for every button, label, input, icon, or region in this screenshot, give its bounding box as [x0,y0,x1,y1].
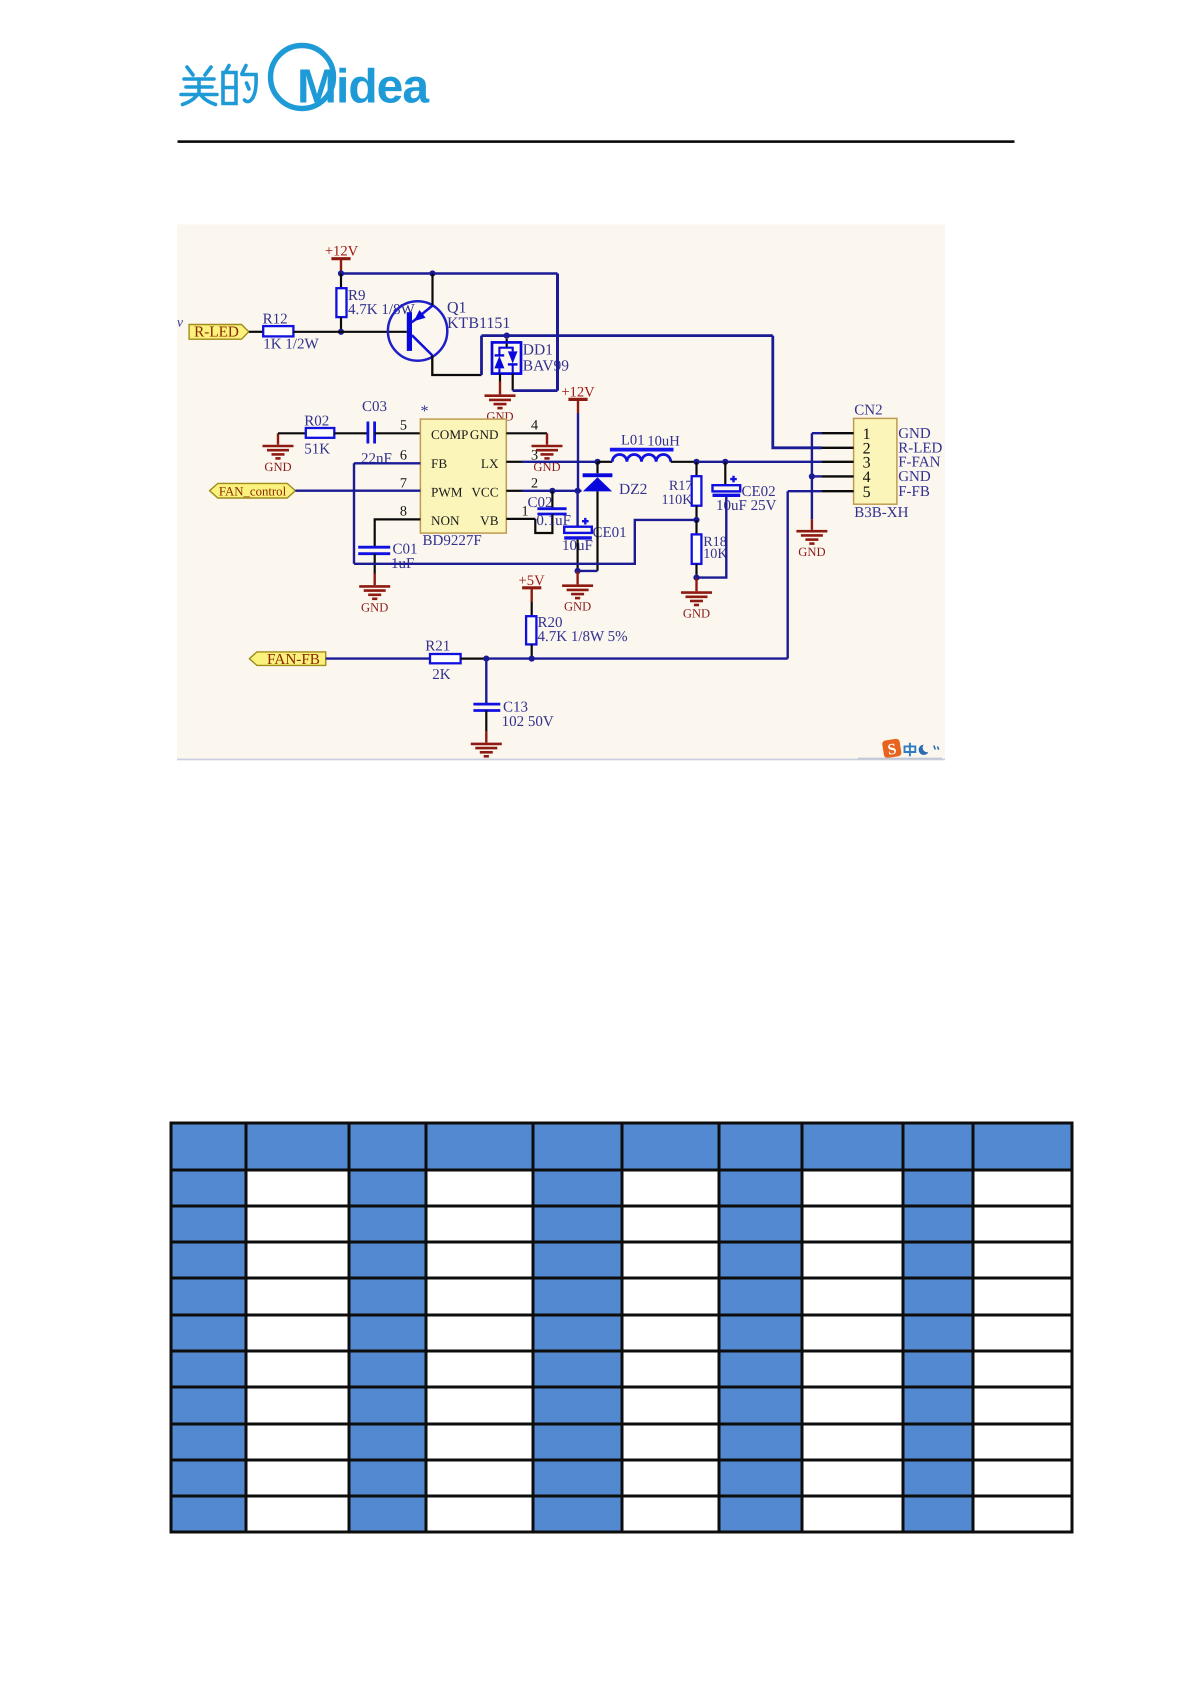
美 glyph (vector approximation) [181,67,217,105]
resistor R21 [425,638,460,683]
svg-text:DD1: DD1 [523,341,553,358]
svg-text:PWM: PWM [431,484,463,499]
wire CE01 bottom [576,540,578,571]
svg-text:22nF: 22nF [361,451,392,467]
svg-text:2K: 2K [432,667,451,683]
svg-text:BD9227F: BD9227F [423,533,482,549]
wire Q1 emitter to rail [431,274,433,306]
wire VB pin 1 [506,518,535,520]
schematic background [177,224,945,760]
watermark sogou toolbar [858,738,942,758]
inductor L01 [598,432,681,461]
wire C13 to ground [485,711,487,732]
svg-text:10uF 25V: 10uF 25V [716,498,777,514]
svg-text:Midea: Midea [297,61,429,114]
node junction DD1 top [504,333,510,339]
wire +12V riser right [556,274,559,391]
capacitor CE01 [562,491,627,554]
port R-LED [189,324,249,341]
wire rail to R9 [340,274,342,289]
wire DZ2 anode down [596,491,598,571]
node junction FB divider [693,517,699,523]
power +5V [519,573,546,616]
port FAN-FB [249,651,325,668]
wire R-LED to R12 [249,331,263,333]
node junction R20 [529,656,535,662]
pin 5 stub [788,490,822,492]
wire R-LED to pin 2 [773,336,822,448]
svg-text:B3B-XH: B3B-XH [854,505,908,521]
ground at R02 [263,433,294,474]
capacitor C02 [528,491,571,533]
ground below R18 [681,578,712,621]
transistor Q1 KTB1151 [388,300,511,361]
svg-text:DZ2: DZ2 [619,481,647,498]
wire R-LED net rail [482,334,773,337]
svg-text:4.7K 1/8W 5%: 4.7K 1/8W 5% [538,629,628,645]
node junction pin 4 gnd [809,473,815,479]
svg-text:GND: GND [898,426,931,442]
wire R9 bottom [340,317,342,332]
svg-text:10K: 10K [703,546,728,562]
wire LX pin 3 [506,461,522,463]
svg-text:1K 1/2W: 1K 1/2W [263,336,319,352]
resistor R18 [692,520,729,564]
diode DZ2 [583,462,648,498]
svg-text:C02: C02 [528,495,553,511]
wire F-FAN net [697,461,823,463]
ground below CN2 [796,519,827,559]
svg-text:CN2: CN2 [854,403,882,419]
svg-text:GND: GND [564,600,591,614]
ground below C01 [359,586,390,614]
wire FB pin 6 [354,462,420,464]
wire CN2 gnd bus [811,433,813,519]
svg-text:102 50V: 102 50V [502,714,554,730]
svg-text:GND: GND [898,469,931,485]
svg-text:110K: 110K [661,492,693,508]
svg-text:GND: GND [683,607,710,621]
pin 1 stub [812,432,822,434]
resistor R17 [661,462,701,508]
pin 4 stub [812,475,822,477]
wire R18 bottom [695,564,697,578]
wire L01 to node [671,461,697,463]
wire F-FB riser [787,491,789,658]
svg-text:8: 8 [400,504,407,520]
svg-text:F-FAN: F-FAN [898,455,940,471]
node junction C13 [483,656,489,662]
wire R21 to node [461,657,487,659]
capacitor C13 [473,659,553,730]
node junction at R9 top [338,270,344,276]
wire VCC pin 2 [506,490,522,492]
power +12V (top) [325,244,359,274]
svg-text:10uH: 10uH [647,433,680,449]
ground below DD1 [485,396,516,424]
svg-text:R21: R21 [425,638,450,654]
svg-text:NON: NON [431,513,460,528]
wire C03 to pin5 [375,432,421,434]
svg-text:VB: VB [480,513,499,528]
svg-text:VCC: VCC [471,484,498,499]
svg-text:GND: GND [798,545,825,559]
svg-text:GND: GND [264,460,291,474]
resistor R20 [526,615,628,645]
wire FB sense rail [354,520,697,564]
capacitor CE02 [713,462,777,514]
svg-text:2: 2 [531,476,538,492]
svg-text:FB: FB [431,456,447,471]
node junction R18/CE02 ground [693,575,699,581]
wire FAN-FB to R21 [326,657,430,659]
node junction R17 top [693,459,699,465]
wire R20 bottom [531,644,533,658]
wire R17 bottom [695,506,697,520]
svg-text:GND: GND [470,427,499,442]
node junction R9/R12/base [338,329,344,335]
ground below CE01 [562,571,593,614]
node junction CE01/+12V [575,488,581,494]
ground at pin 4 [532,433,563,474]
svg-text:R-LED: R-LED [194,324,239,341]
svg-text:5: 5 [863,484,871,501]
svg-text:6: 6 [400,448,407,464]
svg-text:GND: GND [361,600,388,614]
pin 3 stub [822,461,854,463]
wire collector riser [480,336,483,375]
svg-text:LX: LX [481,456,499,471]
port FAN_control [210,483,296,498]
capacitor C01 [358,541,417,571]
wire CE02 bottom loop [697,497,727,578]
connector CN2 B3B-XH body [854,403,909,522]
svg-text:v: v [177,315,183,330]
node junction CE02 top [722,459,728,465]
wire DD1 right pin to +12V riser [512,374,514,391]
capacitor C03 [361,399,392,467]
wire gnd to R02 [278,432,306,434]
node junction at Q1 emitter column [429,270,435,276]
svg-text:BAV99: BAV99 [523,357,569,374]
wire R12 to Q1 base [293,331,406,333]
svg-text:KTB1151: KTB1151 [447,315,510,332]
svg-text:L01: L01 [621,432,645,448]
的 glyph (vector approximation) [223,66,256,104]
wire Q1 collector down and right [432,355,481,375]
svg-text:FAN-FB: FAN-FB [267,651,320,668]
svg-text:R12: R12 [263,312,288,328]
svg-text:5: 5 [400,418,407,434]
svg-text:R02: R02 [304,414,329,430]
Midea ring [271,46,334,109]
node junction LX/DZ2 [594,459,600,465]
header rule [178,140,1015,143]
svg-text:4: 4 [531,418,538,434]
IC U1 BD9227F [420,419,506,549]
node junction CE01/DZ2 ground [575,568,581,574]
svg-text:C03: C03 [362,399,387,415]
wire R02 to C03 [334,432,367,434]
power +12V (mid) [561,384,595,490]
resistor R12 [263,312,320,353]
svg-text:51K: 51K [304,441,330,457]
table header row (all blue) [171,1123,1072,1170]
wire FB riser [353,463,355,564]
svg-text:COMP: COMP [431,427,468,442]
node junction C02 top [549,488,555,494]
wire PWM pin 7 [295,490,420,492]
wire DD1 left pin to ground [499,374,501,382]
wire F-FB net [486,657,787,659]
wire NON pin 8 [375,519,421,547]
resistor R02 [304,414,334,458]
svg-text:FAN_control: FAN_control [219,484,287,498]
resistor R9 [336,288,415,318]
ground below C13 [471,744,502,756]
svg-text:*: * [421,403,429,420]
wire +12V top rail [341,272,558,275]
svg-text:7: 7 [400,476,407,492]
wire GND pin 4 [506,432,547,434]
svg-text:F-FB: F-FB [898,484,930,500]
wire C01 to ground [374,554,376,574]
diode DD1 BAV99 [492,339,569,375]
